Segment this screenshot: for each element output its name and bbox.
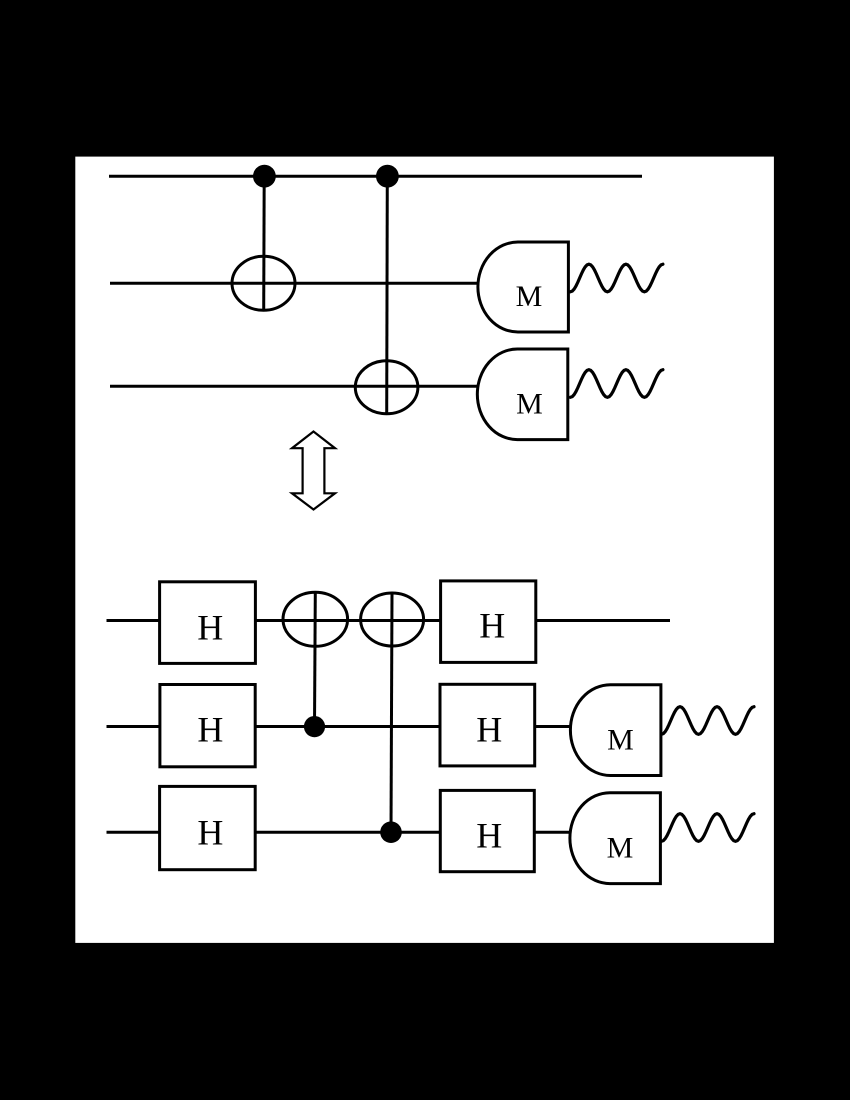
measurement gate M2 on qubit 3 bbox=[477, 349, 567, 440]
classical output squiggle of M4 bbox=[662, 814, 755, 842]
CNOT 1 target (XOR circle) on qubit 2 bbox=[232, 256, 295, 310]
wire: bottom circuit qubit line 1 bbox=[107, 619, 671, 622]
wire: top circuit qubit line 2 bbox=[110, 282, 480, 285]
control line of CNOT 2 (qubit1 to qubit3) bbox=[385, 176, 389, 414]
classical output squiggle of M2 bbox=[570, 370, 663, 398]
measurement gate M1 on qubit 2 bbox=[478, 242, 568, 332]
control dot of CNOT 4 on bottom qubit 3 bbox=[380, 821, 402, 843]
Hadamard gate H4 on bottom qubit 2, column 2 bbox=[440, 684, 535, 766]
equivalence double-headed arrow bbox=[292, 432, 335, 510]
measurement gate M4 on bottom qubit 3 bbox=[570, 793, 661, 884]
svg-text:H: H bbox=[197, 710, 223, 750]
svg-text:H: H bbox=[479, 606, 505, 646]
wire: bottom circuit qubit line 3 bbox=[107, 831, 573, 834]
Hadamard gate H5 on bottom qubit 3, column 1 bbox=[160, 786, 256, 869]
wire: top circuit qubit line 1 bbox=[109, 175, 642, 178]
svg-text:H: H bbox=[476, 815, 502, 855]
Hadamard gate H6 on bottom qubit 3, column 2 bbox=[440, 790, 534, 871]
wire: top circuit qubit line 3 bbox=[110, 385, 480, 388]
Hadamard gate H3 on bottom qubit 2, column 1 bbox=[160, 685, 255, 767]
Hadamard gate H1 on bottom qubit 1, column 1 bbox=[160, 582, 256, 664]
svg-text:H: H bbox=[197, 608, 223, 648]
classical output squiggle of M3 bbox=[662, 707, 755, 735]
control dot of CNOT 3 on bottom qubit 2 bbox=[304, 716, 325, 737]
svg-text:M: M bbox=[516, 280, 543, 313]
svg-text:H: H bbox=[197, 812, 223, 852]
svg-text:M: M bbox=[516, 387, 543, 420]
control dot of CNOT 2 on qubit 1 bbox=[376, 165, 399, 188]
CNOT 3 target (XOR circle) on bottom qubit 1 bbox=[283, 592, 348, 646]
svg-text:M: M bbox=[607, 724, 634, 757]
control line of CNOT 1 (qubit1 to qubit2) bbox=[262, 176, 266, 310]
control line of CNOT 4 (qubit3 to qubit1) bbox=[391, 593, 392, 832]
wire: bottom circuit qubit line 2 bbox=[107, 725, 573, 728]
CNOT 4 target (XOR circle) on bottom qubit 1 bbox=[361, 593, 424, 646]
Hadamard gate H2 on bottom qubit 1, column 2 bbox=[441, 581, 536, 663]
CNOT 2 target (XOR circle) on qubit 3 bbox=[355, 361, 418, 414]
control line of CNOT 3 (qubit2 to qubit1) bbox=[313, 592, 317, 727]
control dot of CNOT 1 on qubit 1 bbox=[253, 165, 276, 188]
svg-text:M: M bbox=[607, 832, 634, 865]
classical output squiggle of M1 bbox=[570, 264, 663, 292]
measurement gate M3 on bottom qubit 2 bbox=[570, 685, 661, 776]
svg-text:H: H bbox=[476, 710, 502, 750]
